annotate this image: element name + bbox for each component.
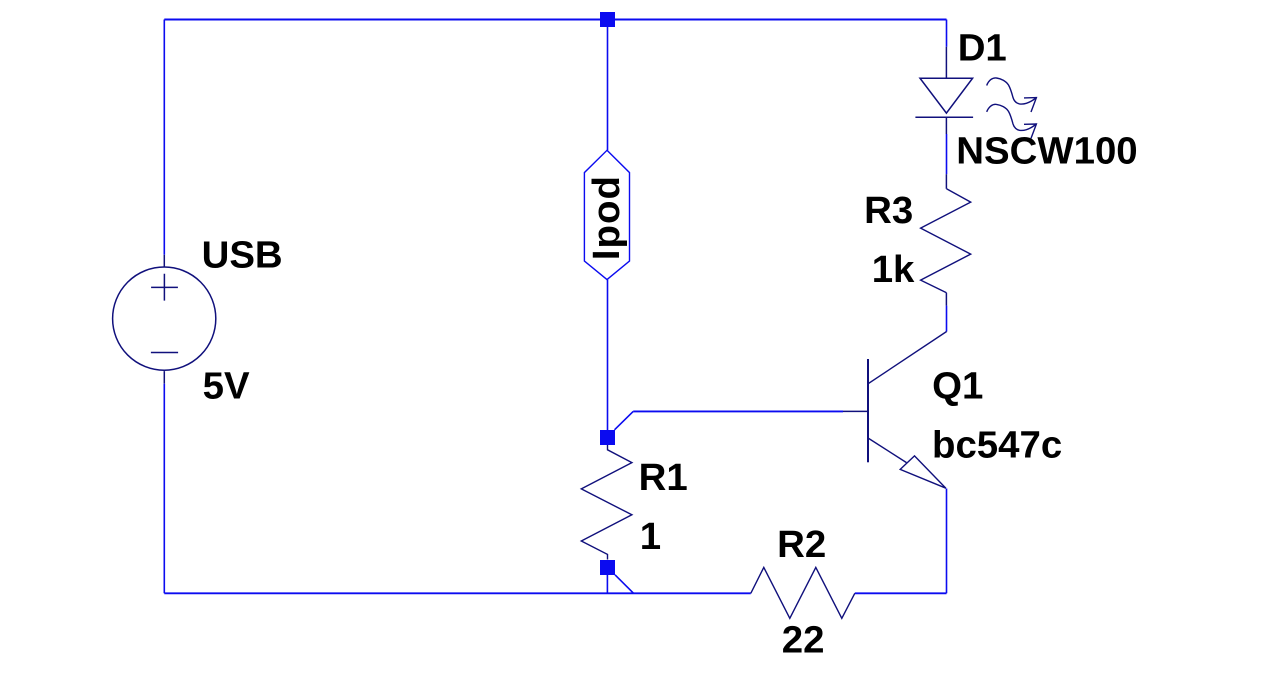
wire diagonal bottom node to bottom rail — [615, 575, 633, 593]
svg-text:R2: R2 — [777, 523, 826, 566]
wire base horizontal — [633, 410, 843, 412]
wire diagonal node to base wire — [615, 411, 634, 429]
resistor R3 zigzag — [921, 189, 971, 293]
voltage source V1 circle — [113, 267, 216, 370]
resistor R3 bottom pin lead — [945, 293, 947, 306]
wire stub below bottom node — [606, 575, 608, 593]
svg-text:1k: 1k — [872, 248, 915, 291]
resistor R1 zigzag — [581, 445, 632, 560]
svg-text:D1: D1 — [958, 27, 1007, 70]
svg-text:1: 1 — [640, 515, 661, 558]
LED D1 triangle — [920, 78, 973, 113]
net flag hexagon Ipod — [584, 150, 629, 279]
wire left vertical upper (source top to top rail) — [163, 20, 165, 255]
svg-text:NSCW100: NSCW100 — [956, 130, 1137, 173]
transistor Q1 emitter diagonal — [868, 438, 907, 463]
resistor R2 zigzag — [751, 567, 855, 618]
voltage source minus sign — [151, 352, 178, 354]
wire collector to R3 — [946, 306, 948, 332]
svg-text:R1: R1 — [639, 456, 688, 499]
wire right vertical emitter to bottom rail — [946, 489, 948, 594]
wire top horizontal from source to diode — [164, 19, 946, 21]
resistor R3 top pin lead — [945, 174, 947, 189]
transistor Q1 emitter arrow — [900, 456, 946, 488]
transistor Q1 collector diagonal — [868, 332, 947, 384]
svg-text:Q1: Q1 — [932, 364, 983, 407]
wire node to Ipod flag — [607, 20, 609, 151]
node junction square at R1 top — [600, 430, 615, 445]
wire Ipod flag to R1 node — [607, 280, 609, 431]
svg-text:5V: 5V — [203, 365, 250, 408]
transistor Q1 base lead — [843, 410, 868, 412]
wire left vertical lower (source bottom to bottom rail) — [163, 384, 165, 594]
wire diode anode to top rail — [946, 20, 948, 47]
voltage source top pin lead — [163, 255, 165, 267]
LED D1 cathode pin lead — [945, 117, 947, 134]
svg-text:22: 22 — [782, 619, 825, 662]
voltage source plus sign — [151, 274, 178, 301]
LED D1 anode pin lead — [945, 47, 947, 78]
wire bottom horizontal right of R2 — [855, 592, 947, 594]
transistor Q1 base bar — [867, 359, 869, 462]
svg-text:bc547c: bc547c — [932, 423, 1062, 466]
node junction square top (net Ipod at top rail) — [600, 12, 615, 27]
svg-text:Ipod: Ipod — [585, 175, 628, 260]
LED light arrow 2 — [987, 104, 1037, 138]
wire bottom horizontal left of R2 — [164, 592, 751, 594]
svg-text:R3: R3 — [864, 189, 913, 232]
LED D1 cathode bar — [915, 116, 973, 118]
wire diode cathode to R3 — [946, 134, 948, 174]
node junction square at R1 bottom — [600, 560, 615, 575]
svg-text:USB: USB — [202, 234, 283, 277]
LED light arrow 1 — [987, 78, 1037, 112]
voltage source bottom pin lead — [163, 371, 165, 384]
